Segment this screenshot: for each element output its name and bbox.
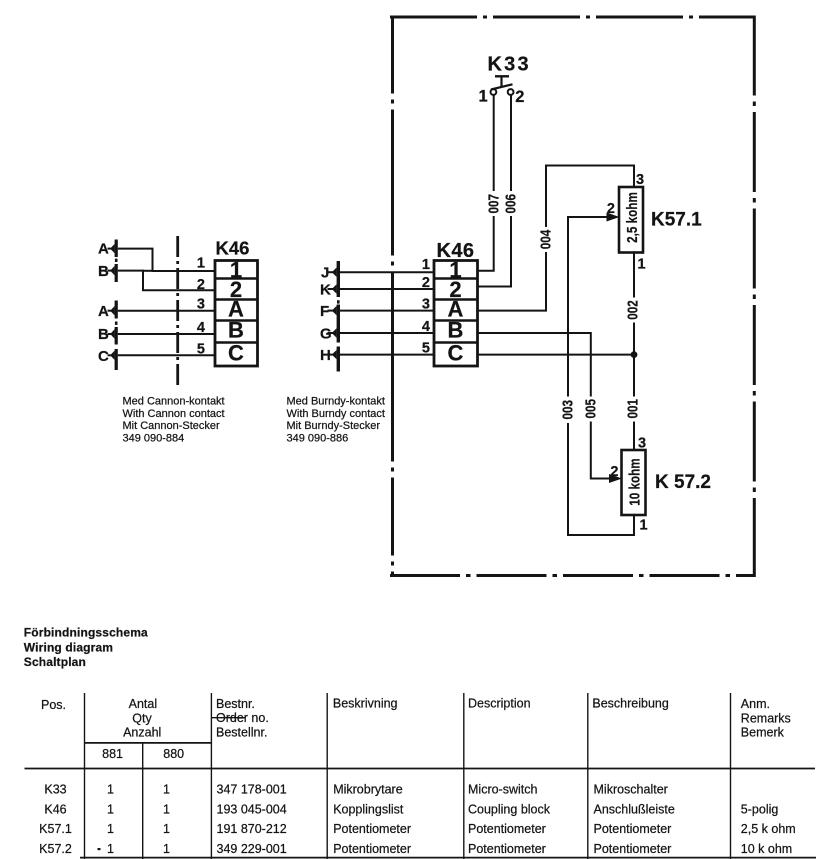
annotation Burndy contact — [287, 396, 385, 445]
svg-text:2: 2 — [610, 464, 618, 480]
strikethrough on Order — [211, 717, 245, 719]
terminal G — [320, 326, 337, 343]
wire 003 (K57.1 pin2 to K57.2 pin1) — [559, 217, 634, 535]
svg-text:1: 1 — [640, 518, 648, 534]
svg-text:191 870-212: 191 870-212 — [217, 822, 287, 836]
terminal J (right connector) — [321, 265, 337, 282]
svg-text:Remarks: Remarks — [741, 711, 791, 725]
coupling block K46 (right, Burndy) — [434, 240, 478, 366]
wire K to pin2 — [340, 288, 434, 290]
svg-text:Mit Cannon-Stecker: Mit Cannon-Stecker — [123, 420, 221, 432]
svg-text:1: 1 — [163, 783, 170, 797]
svg-text:349 229-001: 349 229-001 — [217, 842, 287, 856]
svg-text:B: B — [448, 318, 464, 343]
pin numbers right K46 — [422, 257, 430, 357]
svg-text:Coupling block: Coupling block — [468, 802, 551, 816]
chain dot — [115, 322, 118, 325]
svg-text:With Burndy contact: With Burndy contact — [287, 408, 385, 420]
wire 001 (junction down to K57.2 pin3) — [624, 355, 641, 450]
terminal A (left top) — [98, 240, 118, 258]
svg-text:Micro-switch: Micro-switch — [468, 783, 537, 797]
svg-text:1: 1 — [163, 802, 170, 816]
svg-text:Bemerk: Bemerk — [741, 726, 785, 740]
svg-text:349 090-884: 349 090-884 — [123, 432, 185, 444]
svg-text:347 178-001: 347 178-001 — [217, 783, 287, 797]
wire 005 (K46 B to K57.2 pin2) — [478, 333, 619, 479]
svg-text:1: 1 — [107, 783, 114, 797]
svg-text:Bestellnr.: Bestellnr. — [216, 725, 267, 739]
svg-text:1: 1 — [163, 822, 170, 836]
svg-text:1: 1 — [638, 257, 646, 273]
chain dot — [115, 259, 118, 262]
wire J to pin1 — [340, 271, 434, 273]
svg-text:3: 3 — [636, 172, 644, 188]
svg-text:193 045-004: 193 045-004 — [217, 802, 287, 816]
pin numbers left K46 — [197, 256, 205, 358]
terminal A2 (left) — [98, 301, 118, 321]
svg-text:2: 2 — [515, 88, 524, 106]
wire B to pin2 — [118, 271, 215, 291]
svg-text:Beschreibung: Beschreibung — [592, 697, 668, 711]
svg-text:Potentiometer: Potentiometer — [594, 842, 672, 856]
svg-text:1: 1 — [107, 822, 114, 836]
svg-text:Schaltplan: Schaltplan — [24, 655, 86, 669]
heading — [24, 626, 148, 669]
node junction — [631, 351, 638, 358]
svg-text:006: 006 — [502, 194, 519, 214]
svg-text:Mit Burndy-Stecker: Mit Burndy-Stecker — [287, 420, 381, 432]
svg-text:Mikrobrytare: Mikrobrytare — [333, 783, 403, 797]
svg-text:K46: K46 — [216, 238, 250, 259]
svg-text:K33: K33 — [488, 53, 531, 75]
svg-text:Anm.: Anm. — [741, 697, 770, 711]
wire 007 (K33 pin1 to K46 pin1) — [478, 95, 502, 271]
svg-text:2,5 k ohm: 2,5 k ohm — [741, 822, 796, 836]
coupling block K46 (left, Cannon) — [215, 238, 258, 367]
svg-text:Med Cannon-kontakt: Med Cannon-kontakt — [123, 396, 225, 408]
potentiometer K57.2 — [609, 436, 711, 534]
dash-dot boundary frame — [390, 16, 754, 578]
terminal C (left) — [98, 348, 118, 370]
parts table rules — [25, 743, 816, 858]
micro-switch K33 — [479, 53, 531, 106]
svg-text:C: C — [98, 348, 109, 365]
wire G to pin4 — [340, 332, 434, 334]
svg-text:Mikroschalter: Mikroschalter — [594, 783, 668, 797]
svg-text:007: 007 — [485, 194, 502, 214]
wire A2 to pin3 — [118, 310, 215, 312]
svg-text:2,5 kohm: 2,5 kohm — [623, 192, 640, 243]
svg-text:K46: K46 — [44, 802, 66, 816]
svg-text:Description: Description — [468, 696, 531, 710]
svg-text:K57.2: K57.2 — [39, 842, 72, 856]
svg-text:2: 2 — [607, 201, 615, 217]
chain bar J-K — [337, 261, 340, 297]
svg-text:004: 004 — [537, 229, 554, 249]
svg-text:349 090-886: 349 090-886 — [287, 432, 349, 444]
wire 006 (K33 pin2 to K46 pin2) — [478, 95, 520, 286]
svg-text:005: 005 — [582, 398, 599, 418]
potentiometer K57.1 — [607, 172, 703, 273]
chain bar F-G — [337, 305, 340, 343]
svg-text:Med Burndy-kontakt: Med Burndy-kontakt — [287, 396, 385, 408]
svg-text:3: 3 — [638, 436, 646, 452]
svg-text:3: 3 — [197, 297, 205, 313]
wire C row to junction — [478, 354, 635, 356]
svg-text:A: A — [98, 303, 109, 320]
wire bridge segment row1 — [143, 270, 153, 272]
svg-text:Kopplingslist: Kopplingslist — [333, 802, 404, 816]
wire H to pin5 — [340, 354, 434, 356]
svg-text:C: C — [448, 341, 464, 366]
svg-text:Bestnr.: Bestnr. — [216, 697, 255, 711]
terminal B2 (left) — [98, 326, 118, 345]
table data rows — [44, 783, 667, 797]
svg-text:4: 4 — [422, 319, 430, 335]
svg-text:5: 5 — [422, 341, 430, 357]
svg-text:K57.1: K57.1 — [651, 210, 702, 231]
svg-text:C: C — [228, 341, 244, 366]
svg-text:Potentiometer: Potentiometer — [333, 842, 411, 856]
annotation Cannon contact — [123, 396, 225, 445]
wire B2 to pin4 — [118, 333, 215, 335]
table header text — [41, 696, 791, 761]
terminal H — [320, 347, 337, 364]
svg-text:B: B — [98, 326, 109, 343]
svg-text:881: 881 — [102, 747, 123, 761]
svg-text:K 57.2: K 57.2 — [655, 472, 711, 493]
svg-text:1: 1 — [197, 256, 205, 272]
svg-text:3: 3 — [422, 297, 430, 313]
svg-text:4: 4 — [197, 320, 205, 336]
svg-text:001: 001 — [624, 398, 641, 418]
svg-text:Potentiometer: Potentiometer — [468, 822, 546, 836]
svg-text:Potentiometer: Potentiometer — [468, 842, 546, 856]
svg-text:2: 2 — [197, 277, 205, 293]
svg-text:A: A — [98, 241, 109, 258]
terminal B (left) — [98, 263, 118, 282]
svg-text:Pos.: Pos. — [41, 698, 66, 712]
wire 002 (K57.1 pin1 down to junction) — [624, 253, 641, 355]
svg-text:B: B — [228, 318, 244, 343]
svg-text:1: 1 — [479, 88, 488, 106]
chain bar H — [337, 347, 340, 372]
wire C to pin5 — [118, 354, 215, 356]
svg-text:880: 880 — [163, 747, 184, 761]
svg-text:1: 1 — [422, 257, 430, 273]
svg-text:Qty: Qty — [132, 711, 152, 725]
svg-text:1: 1 — [107, 842, 114, 856]
svg-text:10 k ohm: 10 k ohm — [741, 842, 792, 856]
terminal K — [320, 282, 337, 299]
svg-text:Beskrivning: Beskrivning — [333, 696, 398, 710]
wire 004 (K46 A to K57.1 pin3) — [478, 166, 635, 311]
svg-text:003: 003 — [559, 400, 576, 420]
left connector chain line — [176, 236, 179, 385]
svg-text:Wiring diagram: Wiring diagram — [24, 640, 113, 654]
svg-text:5: 5 — [197, 342, 205, 358]
svg-text:1: 1 — [163, 842, 170, 856]
chain dot — [337, 300, 340, 303]
svg-text:Anschlußleiste: Anschlußleiste — [594, 802, 675, 816]
svg-text:K57.1: K57.1 — [39, 822, 72, 836]
svg-text:Potentiometer: Potentiometer — [594, 822, 672, 836]
svg-text:5-polig: 5-polig — [741, 802, 779, 816]
svg-text:Förbindningsschema: Förbindningsschema — [24, 626, 148, 640]
svg-text:B: B — [98, 263, 109, 280]
wire A to pin1 — [118, 249, 215, 271]
stray dot — [98, 848, 101, 850]
wire F to pin3 — [340, 310, 434, 312]
terminal F — [320, 303, 337, 320]
svg-text:002: 002 — [624, 300, 641, 320]
svg-text:1: 1 — [107, 802, 114, 816]
svg-text:Antal: Antal — [129, 697, 158, 711]
svg-text:K33: K33 — [44, 783, 66, 797]
svg-text:2: 2 — [422, 275, 430, 291]
svg-text:Potentiometer: Potentiometer — [333, 822, 411, 836]
svg-text:With Cannon contact: With Cannon contact — [123, 408, 225, 420]
svg-text:Anzahl: Anzahl — [123, 725, 161, 739]
svg-text:10 kohm: 10 kohm — [626, 458, 643, 505]
